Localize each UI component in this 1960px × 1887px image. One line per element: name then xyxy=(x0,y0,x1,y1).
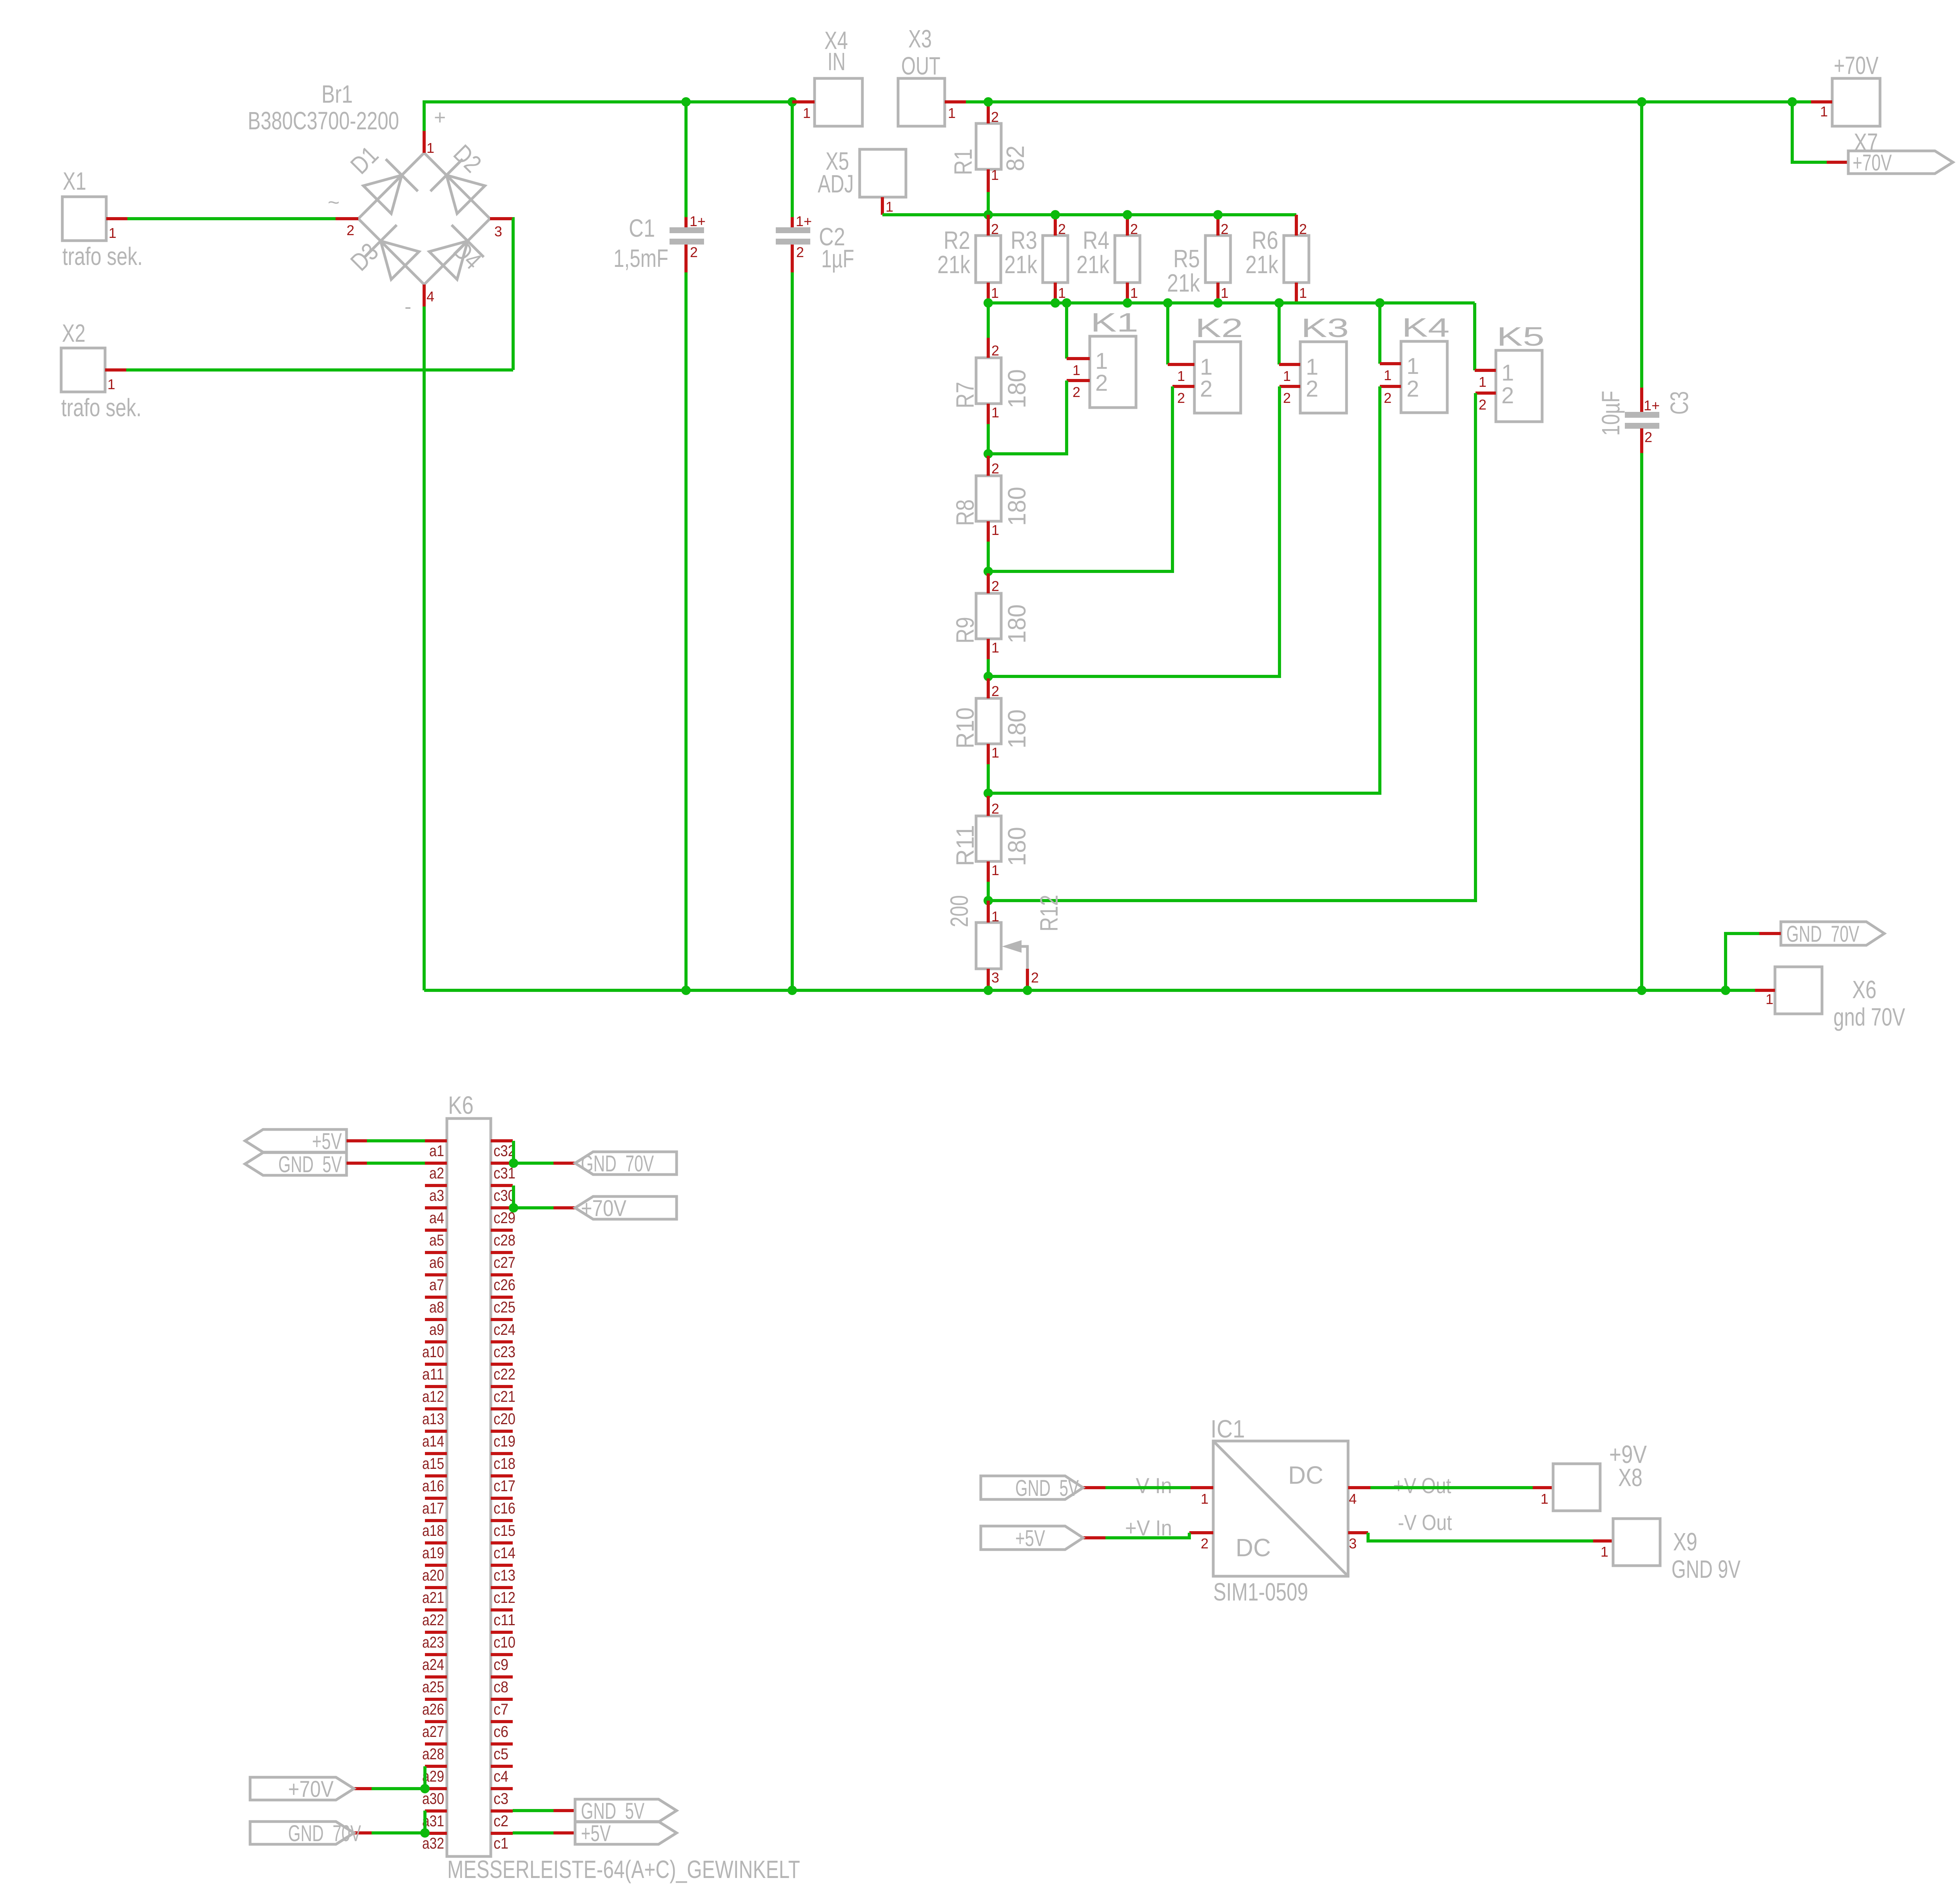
svg-text:-V In: -V In xyxy=(1129,1473,1172,1498)
pin a16 of K6 xyxy=(425,1474,447,1477)
svg-text:c19: c19 xyxy=(494,1433,515,1450)
svg-text:1+: 1+ xyxy=(796,213,812,229)
pin 1 of K4 xyxy=(1380,362,1401,365)
junction node below R8 xyxy=(984,567,993,576)
svg-text:1: 1 xyxy=(991,285,999,301)
wire X2 to bridge pin 3 corner xyxy=(126,368,513,372)
pin a24 of K6 xyxy=(425,1653,447,1656)
svg-text:trafo sek.: trafo sek. xyxy=(61,393,142,422)
svg-text:+70V: +70V xyxy=(1853,150,1892,176)
pin 1 of X2 xyxy=(105,368,126,372)
svg-text:1: 1 xyxy=(991,862,999,878)
pin a8 of K6 xyxy=(425,1296,447,1299)
pin a10 of K6 xyxy=(425,1340,447,1343)
pin 2 of R11 xyxy=(987,796,990,816)
wire node to R9 xyxy=(987,571,990,573)
pin 1 of K2 xyxy=(1168,363,1194,366)
pin 1 of X5 xyxy=(881,197,884,215)
svg-text:1: 1 xyxy=(991,908,999,924)
wire node to R8 xyxy=(987,454,990,456)
wire K5 pin 2 down to ladder node xyxy=(988,393,1475,901)
svg-text:gnd 70V: gnd 70V xyxy=(1833,1003,1905,1031)
pin 2 of R8 xyxy=(987,456,990,476)
junction node rail R5 xyxy=(1213,298,1223,308)
svg-text:a16: a16 xyxy=(422,1477,444,1495)
svg-text:1: 1 xyxy=(1058,285,1066,301)
pin 2 of C1 xyxy=(684,245,688,272)
diode D1 xyxy=(363,175,402,214)
svg-text:1: 1 xyxy=(1501,360,1514,386)
pin 1 of R8 xyxy=(987,521,990,542)
svg-text:2: 2 xyxy=(1058,221,1066,237)
wiper arrow of R12 xyxy=(1002,940,1022,953)
svg-text:1: 1 xyxy=(1073,362,1080,378)
wire +5V flag to IC1 pin 2 xyxy=(1105,1533,1189,1538)
pin a6 of K6 xyxy=(425,1251,447,1254)
pad X9 GND 9V xyxy=(1613,1519,1660,1566)
junction C3 top rail xyxy=(1637,97,1646,107)
svg-text:1: 1 xyxy=(1406,353,1419,379)
svg-text:1: 1 xyxy=(1221,285,1229,301)
svg-text:SIM1-0509: SIM1-0509 xyxy=(1213,1578,1308,1606)
junction R4 ADJ rail xyxy=(1123,210,1132,219)
junction C2 ground rail xyxy=(788,986,797,995)
pin 2 of R7 xyxy=(987,338,990,358)
pin a31 of K6 xyxy=(425,1809,447,1813)
pin 1 of R1 xyxy=(987,169,990,192)
svg-text:Br1: Br1 xyxy=(321,80,353,108)
wire strap c32-c31 xyxy=(512,1141,515,1163)
pin c32 of K6 xyxy=(491,1139,513,1142)
svg-text:c17: c17 xyxy=(494,1477,515,1495)
svg-text:DC: DC xyxy=(1288,1461,1323,1489)
svg-text:+70V: +70V xyxy=(288,1776,334,1802)
svg-text:c11: c11 xyxy=(494,1611,515,1629)
svg-text:1: 1 xyxy=(948,105,956,121)
wire K4 pin 2 down to ladder node xyxy=(988,386,1380,793)
junction C3 ground rail xyxy=(1637,986,1646,995)
pin 2 of C2 xyxy=(791,245,794,272)
net flag GND_5V at K6 c2 xyxy=(575,1799,677,1822)
svg-text:2: 2 xyxy=(991,460,999,477)
pin c1 of K6 xyxy=(491,1832,513,1835)
pin a21 of K6 xyxy=(425,1586,447,1589)
net flag +70V at K6 a30 xyxy=(250,1777,354,1800)
svg-text:180: 180 xyxy=(1003,604,1031,644)
pin 1 of R6 xyxy=(1295,283,1298,303)
wire R7 to node xyxy=(987,424,990,454)
svg-text:1: 1 xyxy=(991,745,999,761)
svg-text:a18: a18 xyxy=(422,1522,444,1539)
svg-text:1: 1 xyxy=(1283,368,1291,384)
pin 3 of R12 xyxy=(987,969,990,990)
svg-text:a17: a17 xyxy=(422,1500,444,1517)
pin a14 of K6 xyxy=(425,1430,447,1433)
pin a11 of K6 xyxy=(425,1363,447,1366)
junction c31 strap xyxy=(509,1158,518,1168)
svg-text:C1: C1 xyxy=(629,214,655,242)
junction GND_70V branch xyxy=(1721,986,1730,995)
svg-text:DC: DC xyxy=(1236,1534,1271,1562)
pin 2 of R5 xyxy=(1216,215,1220,236)
pin 1+ of C1 xyxy=(684,217,688,229)
wire top rail to C3 xyxy=(1640,102,1643,388)
wire K1 pin 2 down to ladder node xyxy=(988,381,1067,454)
pin 1 of K5 xyxy=(1475,369,1496,372)
bridge pin 3 xyxy=(490,217,512,220)
wire to +70V flag xyxy=(1792,102,1827,162)
pin 2 of R1 xyxy=(987,102,990,123)
pin 1 of R7 xyxy=(987,404,990,424)
svg-text:c18: c18 xyxy=(494,1455,515,1472)
svg-text:GND_5V: GND_5V xyxy=(278,1152,342,1177)
svg-text:ADJ: ADJ xyxy=(818,170,854,198)
svg-text:4: 4 xyxy=(1349,1491,1357,1507)
svg-text:+: + xyxy=(434,106,446,129)
pin a20 of K6 xyxy=(425,1564,447,1567)
svg-text:+5V: +5V xyxy=(1015,1526,1045,1551)
svg-text:X8: X8 xyxy=(1618,1463,1642,1492)
pin 1 of X6 xyxy=(1755,989,1775,992)
net flag +5V at IC1 xyxy=(981,1526,1083,1550)
svg-text:GND_70V: GND_70V xyxy=(1786,921,1859,947)
wire R8 to node xyxy=(987,542,990,571)
pin a7 of K6 xyxy=(425,1273,447,1276)
svg-text:2: 2 xyxy=(991,683,999,699)
svg-text:2: 2 xyxy=(1479,397,1486,413)
svg-text:a23: a23 xyxy=(422,1634,444,1651)
pin 1+ of C3 xyxy=(1640,388,1643,413)
svg-text:a22: a22 xyxy=(422,1611,444,1629)
wire C3 to ground rail xyxy=(1640,453,1643,990)
svg-text:1: 1 xyxy=(1601,1544,1608,1560)
wire K3 pin 2 down to ladder node xyxy=(988,386,1279,676)
svg-text:c28: c28 xyxy=(494,1232,515,1249)
svg-text:-: - xyxy=(405,295,411,318)
svg-text:1: 1 xyxy=(1820,103,1828,120)
junction R12 pin2 ground rail xyxy=(1023,986,1032,995)
pin a3 of K6 xyxy=(425,1184,447,1187)
svg-text:1: 1 xyxy=(107,376,115,392)
svg-text:K4: K4 xyxy=(1402,313,1450,343)
svg-text:c1: c1 xyxy=(494,1835,508,1852)
wire bridge pin 1 to top rail xyxy=(424,102,792,131)
pin 3 (-V Out) of IC1 xyxy=(1348,1531,1368,1534)
pin 1 of R9 xyxy=(987,639,990,659)
svg-text:X9: X9 xyxy=(1673,1528,1697,1556)
svg-text:180: 180 xyxy=(1003,827,1031,866)
pin 4 (+V Out) of IC1 xyxy=(1348,1486,1370,1489)
svg-text:X2: X2 xyxy=(62,319,85,347)
pin c11 of K6 xyxy=(491,1608,513,1611)
pin a29 of K6 xyxy=(425,1765,447,1768)
pin a27 of K6 xyxy=(425,1720,447,1723)
pin c17 of K6 xyxy=(491,1474,513,1477)
pin 1 of R2 xyxy=(987,283,990,303)
pin c15 of K6 xyxy=(491,1519,513,1522)
pin c19 of K6 xyxy=(491,1430,513,1433)
pin c4 of K6 xyxy=(491,1765,513,1768)
wire ADJ rail xyxy=(882,213,1296,216)
svg-text:2: 2 xyxy=(1177,390,1185,406)
pin c14 of K6 xyxy=(491,1541,513,1544)
pin c9 of K6 xyxy=(491,1653,513,1656)
wire c31 to GND_70V flag xyxy=(514,1162,554,1165)
wire X1 to bridge pin 2 xyxy=(127,217,336,220)
wire c1 to +5V flag xyxy=(513,1831,554,1834)
svg-text:1: 1 xyxy=(1766,991,1773,1007)
pin a4 of K6 xyxy=(425,1206,447,1209)
svg-text:3: 3 xyxy=(494,223,502,239)
diode D3 xyxy=(381,241,419,279)
svg-text:1: 1 xyxy=(991,404,999,421)
svg-text:2: 2 xyxy=(690,244,698,260)
svg-text:a10: a10 xyxy=(422,1343,444,1361)
svg-text:1: 1 xyxy=(1299,285,1307,301)
wire C1 to ground rail xyxy=(684,272,688,990)
wire R1 to ADJ rail xyxy=(987,192,990,215)
svg-text:a3: a3 xyxy=(429,1187,444,1204)
svg-text:~: ~ xyxy=(328,191,339,214)
pin 2 of K5 xyxy=(1475,392,1496,395)
svg-text:a12: a12 xyxy=(422,1388,444,1405)
junction node rail R4 xyxy=(1123,298,1132,308)
pin 1 of K3 xyxy=(1279,363,1300,366)
svg-text:a6: a6 xyxy=(429,1254,444,1271)
wire bridge pin 4 down to ground rail xyxy=(423,306,426,990)
svg-text:a28: a28 xyxy=(422,1746,444,1763)
svg-text:B380C3700-2200: B380C3700-2200 xyxy=(248,107,399,135)
svg-text:c22: c22 xyxy=(494,1366,515,1383)
wire node to R11 xyxy=(987,793,990,796)
svg-text:c25: c25 xyxy=(494,1299,515,1316)
pin c12 of K6 xyxy=(491,1586,513,1589)
net flag GND_70V at K6 c31 xyxy=(575,1152,677,1175)
svg-text:c21: c21 xyxy=(494,1388,515,1405)
svg-text:1: 1 xyxy=(1201,1491,1209,1507)
wire node rail to K2 pin 1 xyxy=(1166,303,1169,364)
pin 1 of X4 xyxy=(792,100,815,103)
pin 2 of R3 xyxy=(1054,215,1057,236)
svg-text:MESSERLEISTE-64(A+C)_GEWINKELT: MESSERLEISTE-64(A+C)_GEWINKELT xyxy=(447,1855,800,1883)
svg-text:2: 2 xyxy=(1201,1535,1209,1552)
svg-text:2: 2 xyxy=(1299,221,1307,237)
svg-text:2: 2 xyxy=(1200,376,1212,402)
pin c8 of K6 xyxy=(491,1675,513,1679)
diode D4 xyxy=(429,241,468,279)
svg-text:c8: c8 xyxy=(494,1679,508,1696)
svg-text:X3: X3 xyxy=(908,25,932,53)
svg-text:21k: 21k xyxy=(1004,250,1038,279)
wire node rail to K4 pin 1 xyxy=(1378,303,1381,364)
bridge pin 1 (+) xyxy=(423,131,426,153)
pin a9 of K6 xyxy=(425,1318,447,1321)
pin 2 of R9 xyxy=(987,573,990,593)
junction node below R9 xyxy=(984,672,993,681)
pin c16 of K6 xyxy=(491,1497,513,1500)
wire ground rail to GND_70V flag xyxy=(1726,934,1759,990)
svg-text:1+: 1+ xyxy=(1644,397,1660,413)
svg-text:180: 180 xyxy=(1003,487,1031,526)
svg-text:1: 1 xyxy=(991,167,999,183)
pin 2 of K4 xyxy=(1380,385,1401,388)
wire C2 to ground rail xyxy=(791,272,794,990)
svg-text:a8: a8 xyxy=(429,1299,444,1316)
svg-text:K5: K5 xyxy=(1497,322,1544,352)
svg-text:3: 3 xyxy=(991,970,999,986)
svg-text:a11: a11 xyxy=(422,1366,444,1383)
svg-text:+70V: +70V xyxy=(581,1196,626,1221)
pin 2 of K3 xyxy=(1279,385,1300,388)
svg-text:2: 2 xyxy=(1073,384,1080,400)
wire IC1 pin 4 to X8 xyxy=(1370,1486,1533,1489)
svg-text:a19: a19 xyxy=(422,1544,444,1562)
wire node rail (R divider top node) xyxy=(988,301,1475,305)
svg-text:1: 1 xyxy=(1479,374,1486,390)
svg-text:a21: a21 xyxy=(422,1589,444,1606)
svg-text:-V Out: -V Out xyxy=(1398,1510,1452,1535)
svg-text:a7: a7 xyxy=(429,1276,444,1294)
junction X7 branch xyxy=(1788,97,1797,107)
svg-text:c2: c2 xyxy=(494,1813,508,1830)
wire K2 pin 2 down to ladder node xyxy=(988,386,1172,571)
pin c3 of K6 xyxy=(491,1787,513,1790)
svg-text:c15: c15 xyxy=(494,1522,515,1539)
pin a32 of K6 xyxy=(425,1832,447,1835)
pin a17 of K6 xyxy=(425,1497,447,1500)
junction node rail R2/R7 node xyxy=(984,298,993,308)
junction node rail K1 branch xyxy=(1062,298,1071,308)
pad X6 gnd 70V xyxy=(1775,967,1822,1014)
svg-text:K3: K3 xyxy=(1301,313,1349,343)
svg-text:c23: c23 xyxy=(494,1343,515,1361)
pin 2 of C3 xyxy=(1640,428,1643,453)
svg-text:GND_70V: GND_70V xyxy=(581,1151,654,1176)
svg-text:a15: a15 xyxy=(422,1455,444,1472)
wire GND_5V flag to a2 xyxy=(347,1162,367,1165)
svg-text:a9: a9 xyxy=(429,1321,444,1338)
wire ground rail xyxy=(424,989,1755,992)
pin c25 of K6 xyxy=(491,1296,513,1299)
svg-text:4: 4 xyxy=(426,288,434,305)
bridge pin 2 (~) xyxy=(336,217,358,220)
svg-text:200: 200 xyxy=(945,895,973,927)
svg-text:a4: a4 xyxy=(429,1209,444,1227)
pin a15 of K6 xyxy=(425,1452,447,1455)
net flag GND_5V at K6 a2 xyxy=(245,1153,347,1175)
svg-text:1µF: 1µF xyxy=(821,245,854,273)
svg-text:1: 1 xyxy=(109,225,116,241)
pin 1 of X7 xyxy=(1811,100,1832,103)
wire bridge pin 3 down to X2 net xyxy=(512,219,513,370)
svg-text:1: 1 xyxy=(1130,285,1138,301)
pin 1+ of C2 xyxy=(791,217,794,229)
pin 1 of R11 xyxy=(987,861,990,882)
svg-text:c14: c14 xyxy=(494,1544,515,1562)
svg-text:c24: c24 xyxy=(494,1321,515,1338)
pin a19 of K6 xyxy=(425,1541,447,1544)
svg-text:X6: X6 xyxy=(1852,975,1877,1004)
svg-text:1: 1 xyxy=(1384,367,1392,383)
svg-text:GND_5V: GND_5V xyxy=(1015,1476,1079,1501)
pin 2 of R10 xyxy=(987,678,990,698)
net flag +70V xyxy=(1848,151,1953,174)
node junction C1 top rail xyxy=(681,97,691,107)
svg-text:2: 2 xyxy=(1306,376,1318,402)
wire +70V flag to a30 xyxy=(372,1787,425,1790)
pin c7 of K6 xyxy=(491,1698,513,1701)
pin 1 of R10 xyxy=(987,744,990,764)
svg-text:2: 2 xyxy=(1130,221,1138,237)
pin 1 of R5 xyxy=(1216,283,1220,303)
svg-text:1,5mF: 1,5mF xyxy=(613,244,668,272)
junction node below R7 xyxy=(984,449,993,459)
svg-text:+V Out: +V Out xyxy=(1393,1473,1451,1498)
junction R5 ADJ rail xyxy=(1213,210,1223,219)
bridge pin 4 (-) xyxy=(423,285,426,306)
svg-text:a13: a13 xyxy=(422,1410,444,1428)
svg-text:2: 2 xyxy=(1644,429,1652,445)
pin a12 of K6 xyxy=(425,1385,447,1388)
svg-text:c16: c16 xyxy=(494,1500,515,1517)
junction a32 strap xyxy=(420,1828,430,1838)
svg-text:2: 2 xyxy=(1384,390,1392,406)
wire c29 to +70V flag xyxy=(514,1206,554,1209)
pin c10 of K6 xyxy=(491,1631,513,1634)
wire c2 to GND_5V flag xyxy=(513,1809,554,1812)
net flag +5V at K6 a1 xyxy=(245,1129,347,1152)
junction node below R11 xyxy=(984,896,993,905)
junction a30 strap xyxy=(420,1784,430,1793)
svg-text:180: 180 xyxy=(1003,369,1031,408)
net flag +5V at K6 c1 xyxy=(575,1822,677,1844)
svg-text:2: 2 xyxy=(1501,383,1514,408)
svg-text:c9: c9 xyxy=(494,1656,508,1673)
junction node rail K4 branch xyxy=(1375,298,1385,308)
svg-text:c13: c13 xyxy=(494,1567,515,1584)
pin c22 of K6 xyxy=(491,1363,513,1366)
svg-text:OUT: OUT xyxy=(901,52,940,80)
svg-text:a1: a1 xyxy=(429,1142,444,1160)
svg-text:+70V: +70V xyxy=(1834,51,1878,80)
pin 1 of R4 xyxy=(1126,283,1129,303)
pin a28 of K6 xyxy=(425,1742,447,1746)
net flag +70V at K6 c29 xyxy=(575,1196,677,1219)
junction c29 strap xyxy=(509,1203,518,1213)
svg-text:GND 9V: GND 9V xyxy=(1671,1555,1740,1583)
junction node rail K2 branch xyxy=(1163,298,1172,308)
pin 2 of R12 (wiper) xyxy=(1026,969,1029,990)
wire strap a29-a30 xyxy=(423,1766,426,1789)
pin 2 of K2 xyxy=(1172,385,1194,388)
wire IC1 pin 3 to X9 xyxy=(1368,1533,1593,1541)
pin 1 (-V In) of IC1 xyxy=(1191,1486,1213,1489)
pin c27 of K6 xyxy=(491,1251,513,1254)
pin 1 of X1 xyxy=(106,217,127,220)
svg-text:+5V: +5V xyxy=(312,1129,342,1154)
svg-text:2: 2 xyxy=(991,343,999,359)
svg-text:a26: a26 xyxy=(422,1701,444,1718)
pin a13 of K6 xyxy=(425,1407,447,1410)
svg-text:2: 2 xyxy=(991,801,999,817)
svg-text:21k: 21k xyxy=(1245,250,1279,279)
pin 1 of R12 xyxy=(987,901,990,923)
svg-text:IN: IN xyxy=(828,47,846,76)
pin c20 of K6 xyxy=(491,1407,513,1410)
pin c28 of K6 xyxy=(491,1229,513,1232)
svg-text:c4: c4 xyxy=(494,1768,508,1785)
svg-text:a24: a24 xyxy=(422,1656,444,1673)
